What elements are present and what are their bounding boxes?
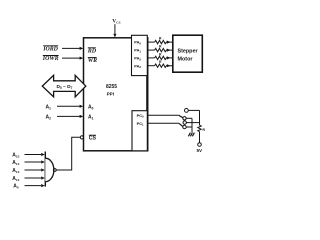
svg-text:Motor: Motor — [178, 57, 194, 63]
svg-text:PA3: PA3 — [134, 63, 141, 69]
svg-text:WR: WR — [88, 58, 97, 64]
svg-text:8255: 8255 — [106, 84, 117, 90]
svg-text:IOWR: IOWR — [42, 56, 59, 62]
svg-text:PC1: PC1 — [137, 121, 144, 127]
svg-text:CS: CS — [89, 136, 97, 142]
svg-text:5V: 5V — [196, 148, 203, 153]
svg-text:PA1: PA1 — [134, 48, 141, 54]
svg-text:D0 – D7: D0 – D7 — [57, 84, 73, 90]
svg-text:PA0: PA0 — [134, 40, 141, 46]
svg-text:PC0: PC0 — [137, 113, 144, 119]
svg-text:PA2: PA2 — [134, 56, 141, 62]
svg-text:IORD: IORD — [42, 46, 58, 52]
svg-text:PPI: PPI — [107, 92, 114, 97]
svg-text:Stepper: Stepper — [178, 49, 199, 55]
svg-text:RD: RD — [87, 48, 97, 54]
